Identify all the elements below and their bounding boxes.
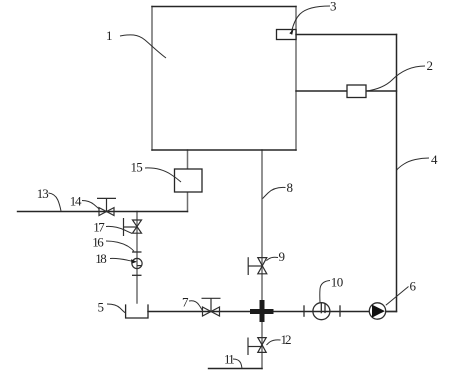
svg-text:15: 15 <box>131 160 143 175</box>
svg-text:3: 3 <box>330 0 337 14</box>
svg-text:10: 10 <box>331 275 344 290</box>
svg-text:13: 13 <box>37 186 49 201</box>
svg-text:1: 1 <box>106 28 113 43</box>
svg-text:6: 6 <box>410 279 417 294</box>
svg-text:12: 12 <box>281 332 292 347</box>
svg-text:9: 9 <box>279 249 286 264</box>
svg-text:18: 18 <box>95 251 107 266</box>
svg-text:16: 16 <box>92 235 104 250</box>
svg-text:17: 17 <box>93 220 105 235</box>
svg-text:5: 5 <box>98 300 105 315</box>
svg-text:14: 14 <box>70 194 82 209</box>
svg-text:11: 11 <box>224 352 235 367</box>
svg-text:7: 7 <box>182 295 189 310</box>
svg-text:4: 4 <box>431 152 438 167</box>
svg-text:2: 2 <box>427 58 434 73</box>
svg-text:8: 8 <box>287 180 294 195</box>
